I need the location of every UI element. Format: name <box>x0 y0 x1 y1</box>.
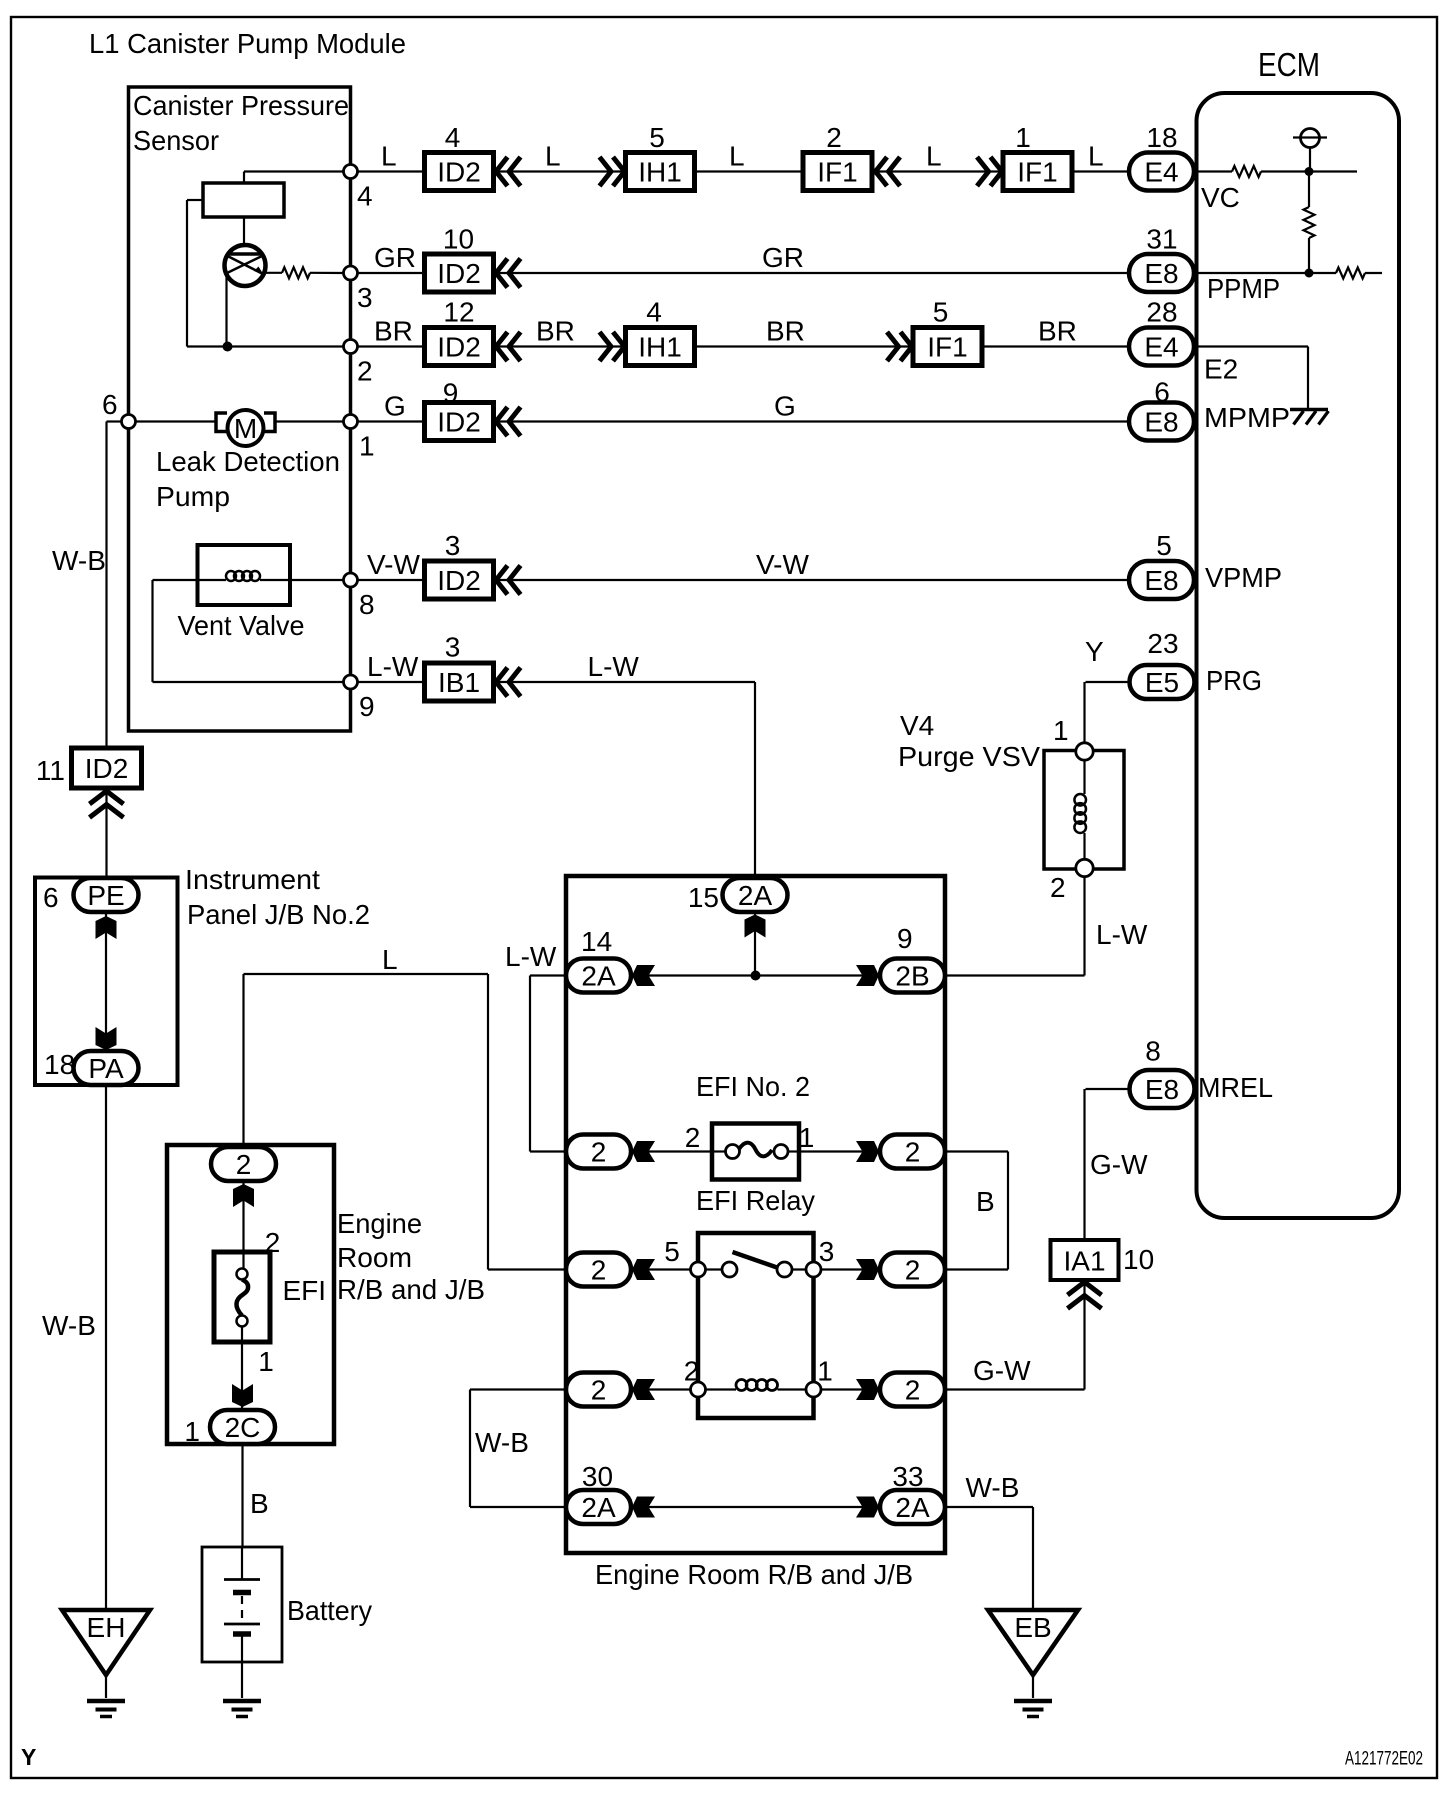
svg-text:8: 8 <box>359 589 375 620</box>
svg-text:V-W: V-W <box>756 549 809 580</box>
svg-text:ECM: ECM <box>1258 46 1320 83</box>
svg-text:2: 2 <box>357 356 373 387</box>
svg-text:L: L <box>1088 141 1104 172</box>
svg-text:IF1: IF1 <box>817 157 857 188</box>
svg-text:2: 2 <box>826 122 842 153</box>
svg-text:L-W: L-W <box>367 651 419 682</box>
svg-text:W-B: W-B <box>966 1472 1020 1503</box>
svg-text:BR: BR <box>374 316 413 347</box>
svg-text:4: 4 <box>445 122 461 153</box>
svg-text:2: 2 <box>1050 872 1066 903</box>
svg-text:L: L <box>382 944 398 975</box>
svg-text:2A: 2A <box>581 961 616 992</box>
svg-text:L: L <box>545 141 561 172</box>
svg-text:Pump: Pump <box>156 481 230 512</box>
svg-text:28: 28 <box>1146 297 1177 328</box>
svg-text:EFI No. 2: EFI No. 2 <box>696 1071 810 1102</box>
svg-text:3: 3 <box>445 632 461 663</box>
svg-text:9: 9 <box>443 378 459 409</box>
svg-text:E8: E8 <box>1144 407 1178 438</box>
svg-text:2: 2 <box>684 1356 700 1387</box>
svg-text:ID2: ID2 <box>437 157 481 188</box>
svg-text:6: 6 <box>102 389 118 420</box>
svg-text:1: 1 <box>359 431 375 462</box>
svg-text:E8: E8 <box>1144 258 1178 289</box>
svg-text:2: 2 <box>905 1255 921 1286</box>
svg-text:Canister Pressure: Canister Pressure <box>133 90 349 121</box>
svg-text:A121772E02: A121772E02 <box>1345 1749 1423 1770</box>
svg-text:E2: E2 <box>1204 354 1238 385</box>
svg-text:E8: E8 <box>1145 1074 1179 1105</box>
svg-text:1: 1 <box>1053 715 1069 746</box>
svg-text:2C: 2C <box>225 1412 261 1443</box>
svg-text:6: 6 <box>43 882 59 913</box>
svg-text:1: 1 <box>184 1416 200 1447</box>
svg-text:L: L <box>926 141 942 172</box>
svg-text:IA1: IA1 <box>1063 1246 1105 1277</box>
svg-text:W-B: W-B <box>42 1310 96 1341</box>
svg-text:B: B <box>250 1488 269 1519</box>
svg-text:Vent Valve: Vent Valve <box>178 610 305 641</box>
svg-text:M: M <box>234 413 257 444</box>
svg-text:5: 5 <box>933 297 949 328</box>
svg-text:8: 8 <box>1145 1036 1161 1067</box>
svg-text:2: 2 <box>905 1137 921 1168</box>
svg-text:IH1: IH1 <box>638 157 682 188</box>
svg-text:5: 5 <box>649 122 665 153</box>
svg-text:5: 5 <box>664 1236 680 1267</box>
svg-text:IB1: IB1 <box>438 667 480 698</box>
svg-text:15: 15 <box>688 882 719 913</box>
svg-text:E4: E4 <box>1144 332 1178 363</box>
svg-text:Engine: Engine <box>337 1208 422 1239</box>
svg-text:2B: 2B <box>895 961 929 992</box>
svg-text:1: 1 <box>1015 122 1031 153</box>
svg-text:12: 12 <box>443 297 474 328</box>
svg-text:5: 5 <box>1156 530 1172 561</box>
svg-text:2A: 2A <box>738 880 773 911</box>
svg-text:2: 2 <box>591 1255 607 1286</box>
svg-text:1: 1 <box>258 1346 274 1377</box>
svg-text:BR: BR <box>536 316 575 347</box>
svg-text:PA: PA <box>88 1053 124 1084</box>
svg-text:11: 11 <box>36 755 65 786</box>
svg-text:9: 9 <box>897 923 913 954</box>
svg-text:G-W: G-W <box>973 1355 1031 1386</box>
svg-text:L-W: L-W <box>1096 919 1148 950</box>
svg-text:ID2: ID2 <box>437 332 481 363</box>
svg-text:ID2: ID2 <box>437 407 481 438</box>
svg-text:IF1: IF1 <box>1017 157 1057 188</box>
svg-text:Y: Y <box>21 1744 36 1770</box>
svg-text:EB: EB <box>1014 1612 1051 1643</box>
svg-text:VC: VC <box>1201 182 1240 213</box>
svg-text:EFI Relay: EFI Relay <box>696 1185 815 1216</box>
svg-text:Instrument: Instrument <box>185 864 320 895</box>
svg-text:IH1: IH1 <box>638 332 682 363</box>
svg-text:18: 18 <box>1146 122 1177 153</box>
svg-text:2A: 2A <box>581 1492 616 1523</box>
svg-text:Panel J/B No.2: Panel J/B No.2 <box>187 899 370 930</box>
svg-text:E4: E4 <box>1144 157 1178 188</box>
svg-text:31: 31 <box>1146 224 1177 255</box>
svg-text:30: 30 <box>582 1461 613 1492</box>
svg-text:Leak Detection: Leak Detection <box>156 446 340 477</box>
svg-text:EFI: EFI <box>283 1275 327 1306</box>
svg-text:Y: Y <box>1085 636 1104 667</box>
svg-text:G: G <box>384 391 406 422</box>
svg-text:W-B: W-B <box>52 545 106 576</box>
svg-text:ID2: ID2 <box>437 565 481 596</box>
svg-text:2: 2 <box>905 1375 921 1406</box>
svg-text:GR: GR <box>762 242 804 273</box>
svg-text:10: 10 <box>1123 1244 1154 1275</box>
svg-text:2: 2 <box>591 1137 607 1168</box>
svg-text:9: 9 <box>359 691 375 722</box>
svg-text:33: 33 <box>892 1461 923 1492</box>
svg-text:23: 23 <box>1147 628 1178 659</box>
svg-text:1: 1 <box>799 1122 815 1153</box>
svg-text:R/B and J/B: R/B and J/B <box>337 1274 485 1305</box>
svg-text:1: 1 <box>817 1356 833 1387</box>
svg-text:10: 10 <box>443 224 474 255</box>
svg-text:L: L <box>729 141 745 172</box>
svg-text:Battery: Battery <box>287 1595 372 1626</box>
svg-text:3: 3 <box>819 1236 835 1267</box>
svg-text:B: B <box>976 1186 995 1217</box>
svg-text:G-W: G-W <box>1090 1149 1148 1180</box>
svg-text:Purge VSV: Purge VSV <box>898 741 1040 772</box>
svg-text:4: 4 <box>357 181 373 212</box>
svg-text:L-W: L-W <box>505 941 557 972</box>
svg-text:PE: PE <box>87 880 124 911</box>
svg-text:ID2: ID2 <box>85 753 129 784</box>
svg-text:W-B: W-B <box>475 1427 529 1458</box>
svg-text:3: 3 <box>357 282 373 313</box>
svg-text:MREL: MREL <box>1198 1072 1273 1103</box>
svg-text:VPMP: VPMP <box>1205 562 1282 593</box>
svg-text:4: 4 <box>646 297 662 328</box>
svg-text:PRG: PRG <box>1206 665 1262 696</box>
svg-text:BR: BR <box>1038 316 1077 347</box>
svg-text:Room: Room <box>337 1242 412 1273</box>
svg-text:V4: V4 <box>900 710 934 741</box>
svg-text:Sensor: Sensor <box>133 125 219 156</box>
svg-text:L1 Canister Pump Module: L1 Canister Pump Module <box>89 28 406 59</box>
svg-text:2A: 2A <box>895 1492 930 1523</box>
svg-text:18: 18 <box>44 1049 75 1080</box>
svg-text:L: L <box>381 141 397 172</box>
svg-text:E5: E5 <box>1145 667 1179 698</box>
svg-text:GR: GR <box>374 242 416 273</box>
svg-text:2: 2 <box>685 1122 701 1153</box>
svg-text:2: 2 <box>591 1375 607 1406</box>
svg-text:E8: E8 <box>1144 565 1178 596</box>
svg-text:3: 3 <box>445 530 461 561</box>
svg-text:EH: EH <box>87 1612 126 1643</box>
svg-text:ID2: ID2 <box>437 258 481 289</box>
svg-text:BR: BR <box>766 316 805 347</box>
svg-text:2: 2 <box>236 1149 252 1180</box>
svg-text:MPMP: MPMP <box>1204 402 1290 433</box>
svg-text:14: 14 <box>581 926 612 957</box>
svg-text:IF1: IF1 <box>927 332 967 363</box>
svg-text:Engine Room R/B and J/B: Engine Room R/B and J/B <box>595 1559 913 1590</box>
svg-text:G: G <box>774 391 796 422</box>
svg-text:V-W: V-W <box>367 549 420 580</box>
svg-text:L-W: L-W <box>588 651 640 682</box>
svg-text:PPMP: PPMP <box>1207 273 1280 304</box>
